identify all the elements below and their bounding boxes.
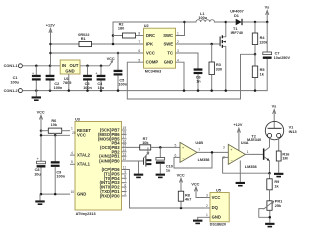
node SWC top rail <box>183 21 186 24</box>
ground PR1 <box>265 223 274 228</box>
svg-text:DRC: DRC <box>146 33 155 38</box>
svg-text:7: 7 <box>124 179 126 183</box>
node DQ pullup <box>180 207 183 210</box>
svg-text:+12V: +12V <box>46 24 55 28</box>
svg-text:+: + <box>182 146 184 150</box>
connector CON1-2 <box>4 89 23 93</box>
trimmer PR1 25k <box>259 200 282 223</box>
node C3 bottom <box>86 89 89 92</box>
svg-text:MC34063: MC34063 <box>145 69 161 73</box>
svg-text:DQ: DQ <box>212 205 219 210</box>
node T1 source gnd <box>225 89 228 92</box>
svg-text:VCC: VCC <box>191 182 199 186</box>
node gnd row C8 <box>40 193 43 196</box>
svg-text:GND: GND <box>65 69 74 74</box>
resistor R6 10k <box>41 119 70 134</box>
svg-text:7: 7 <box>198 148 200 152</box>
node C3 top <box>86 65 89 68</box>
capacitor C8 10u <box>34 156 45 194</box>
node C1 bottom <box>35 89 38 92</box>
svg-text:SWE: SWE <box>163 41 173 46</box>
svg-text:TC: TC <box>167 50 173 55</box>
node vcc row C8 <box>40 134 43 137</box>
wire vcc riser to caps <box>40 131 42 162</box>
power +12V symbol <box>46 24 55 66</box>
op-amp U4B LM358 <box>175 141 210 163</box>
svg-text:DS18B20: DS18B20 <box>210 223 226 227</box>
ground mcu <box>35 194 44 205</box>
svg-text:IRF740: IRF740 <box>231 31 243 35</box>
ground input <box>32 91 41 101</box>
svg-text:6: 6 <box>138 49 140 53</box>
wire U4A out to T2 base <box>245 153 263 155</box>
svg-text:9: 9 <box>124 170 126 174</box>
svg-text:U2: U2 <box>144 24 149 28</box>
node U1 gnd <box>68 89 71 92</box>
wire U2 GND pin4 <box>176 62 185 90</box>
svg-text:Vs: Vs <box>265 6 270 10</box>
svg-text:GND: GND <box>77 192 86 197</box>
svg-text:Vs: Vs <box>272 105 277 109</box>
svg-text:VCC: VCC <box>146 50 155 55</box>
svg-text:1: 1 <box>206 213 208 217</box>
resistor R8 4k7 <box>178 191 191 208</box>
capacitor C5 100n <box>114 53 128 91</box>
svg-text:U3: U3 <box>75 117 80 121</box>
svg-text:14: 14 <box>123 148 127 152</box>
svg-text:13: 13 <box>123 152 127 156</box>
node gate R3 <box>210 43 213 46</box>
ground U4A <box>236 160 245 186</box>
wire GND pin row <box>40 193 70 195</box>
capacitor C2 100n <box>46 66 63 91</box>
wire riser to top rail <box>113 22 185 44</box>
svg-text:180: 180 <box>118 27 124 31</box>
wire U4B output to U4A <box>197 151 228 153</box>
svg-text:1: 1 <box>71 127 73 131</box>
transistor T3 <box>122 147 152 166</box>
svg-text:(AIN0)PB0: (AIN0)PB0 <box>99 158 120 163</box>
capacitor C9 100n <box>51 135 66 194</box>
svg-text:10: 10 <box>71 190 75 194</box>
ground T3 <box>134 161 143 178</box>
power VCC arrow sensor <box>191 182 204 197</box>
svg-text:7: 7 <box>138 40 140 44</box>
resistor R4 120k <box>252 22 268 54</box>
node R3 gnd <box>210 89 213 92</box>
node R2 tap <box>112 34 115 37</box>
node R5 gnd <box>254 89 257 92</box>
power VCC arrow reset <box>37 111 45 131</box>
resistor R5 1k <box>252 54 264 90</box>
svg-text:C1: C1 <box>13 76 18 80</box>
resistor R1 0R022 <box>78 33 91 47</box>
resistor R3 330 <box>209 44 222 91</box>
svg-text:1: 1 <box>247 150 249 154</box>
svg-text:100u: 100u <box>10 80 19 84</box>
capacitor C10 1u <box>156 147 173 173</box>
svg-text:5: 5 <box>175 143 177 147</box>
wire output rail <box>255 21 267 23</box>
svg-text:IN: IN <box>62 63 66 68</box>
IC U2 MC34063 <box>138 24 179 74</box>
svg-text:R1: R1 <box>81 37 86 41</box>
wire U4A inverting feedback from emitter <box>223 157 270 173</box>
node PR1 wiper <box>269 216 272 219</box>
svg-text:5: 5 <box>71 160 73 164</box>
svg-text:20: 20 <box>72 131 76 135</box>
svg-text:VCC: VCC <box>77 133 86 138</box>
svg-text:18: 18 <box>123 131 127 135</box>
svg-text:1n: 1n <box>196 80 201 84</box>
capacitor C6 1n <box>194 68 203 90</box>
ground C10 <box>156 174 165 179</box>
wire PB3 pwm out <box>122 146 140 148</box>
node C4 bottom <box>100 89 103 92</box>
power VCC arrow at 5V rail <box>107 57 115 66</box>
ground U5 <box>193 220 202 225</box>
svg-text:LM358: LM358 <box>198 158 210 162</box>
svg-text:17: 17 <box>123 135 127 139</box>
connector CON1-1 <box>4 64 23 68</box>
power Vs tube arrow <box>272 105 277 129</box>
svg-text:1M: 1M <box>282 157 287 161</box>
node reset pullup <box>40 129 43 132</box>
node gnd row C9 <box>54 193 57 196</box>
svg-text:IPK: IPK <box>146 41 153 46</box>
svg-text:OUT: OUT <box>70 63 79 68</box>
node U2 gnd rail <box>183 89 186 92</box>
svg-text:4: 4 <box>71 151 73 155</box>
node C5 bottom <box>117 89 120 92</box>
svg-text:VCC: VCC <box>107 57 115 61</box>
svg-text:GND: GND <box>212 215 221 220</box>
resistor R9 1k <box>267 173 280 201</box>
wire PD6 one-wire bus <box>122 170 205 209</box>
wire TC pin3 to C6 <box>176 53 199 69</box>
svg-text:3: 3 <box>206 193 208 197</box>
wire U5 gnd <box>198 217 205 219</box>
svg-text:XTAL2: XTAL2 <box>77 153 91 158</box>
capacitor C3 100n <box>83 66 92 91</box>
svg-text:+: + <box>230 148 232 152</box>
node IPK row <box>112 43 115 46</box>
node T2 emitter sense <box>268 172 271 175</box>
op-amp U4A LM358 <box>223 141 257 169</box>
IC U5 DS18B20 <box>205 189 230 227</box>
svg-text:10u/250V: 10u/250V <box>274 56 291 60</box>
node +12V to VCC6 row <box>49 52 52 55</box>
IC U3 ATtiny2313 <box>70 117 127 216</box>
wire SWC pin1 to top rail <box>176 22 185 36</box>
wire ground rail <box>22 59 267 91</box>
node C5 top <box>117 52 120 55</box>
svg-text:3: 3 <box>223 145 225 149</box>
node feedback divider <box>254 53 257 56</box>
svg-text:7805: 7805 <box>63 81 71 85</box>
ground R16 <box>274 173 283 178</box>
wire U4B feedback loop <box>174 152 212 168</box>
svg-text:2: 2 <box>124 192 126 196</box>
svg-text:IN13: IN13 <box>289 130 297 134</box>
transistor T2 MJE340 <box>247 134 270 173</box>
capacitor C4 10u <box>95 66 105 91</box>
capacitor C1 100u <box>10 66 40 91</box>
svg-text:MJE340: MJE340 <box>247 138 261 142</box>
resistor R2 180 <box>113 22 144 38</box>
svg-text:(RXD)PD0: (RXD)PD0 <box>100 193 120 198</box>
node pwm filter <box>159 146 162 149</box>
svg-text:COMP: COMP <box>146 60 159 65</box>
svg-text:2: 2 <box>206 204 208 208</box>
resistor R16 1M <box>276 151 289 173</box>
node U4B out <box>211 151 214 154</box>
wire VCC pin row <box>41 134 70 136</box>
svg-text:−: − <box>182 156 184 160</box>
transistor T1 IRF740 <box>220 22 243 91</box>
node T1 drain <box>225 21 228 24</box>
svg-text:10u: 10u <box>34 172 41 176</box>
power VCC arrow pullup <box>177 174 185 192</box>
svg-text:19: 19 <box>123 126 127 130</box>
svg-text:25k: 25k <box>275 204 282 208</box>
node C2 bottom <box>49 89 52 92</box>
svg-text:6: 6 <box>175 153 177 157</box>
svg-text:SWC: SWC <box>163 33 173 38</box>
svg-text:XTAL1: XTAL1 <box>77 162 91 167</box>
wire COMP feedback <box>127 54 255 99</box>
node +12V to R1 row <box>49 43 52 46</box>
inductor L1 100u <box>185 12 226 22</box>
svg-text:100n: 100n <box>54 86 63 90</box>
wire 5V rail <box>80 65 109 67</box>
svg-text:CON1-1: CON1-1 <box>4 64 18 68</box>
svg-text:C7: C7 <box>275 51 280 55</box>
svg-text:LM358: LM358 <box>245 165 257 169</box>
tube V1 IN13 <box>265 121 296 151</box>
svg-text:GND: GND <box>164 60 173 65</box>
svg-text:+12V: +12V <box>233 123 242 127</box>
svg-text:CON1-2: CON1-2 <box>4 89 18 93</box>
wire input +12V row <box>22 65 60 67</box>
wire R1 row (+12V to IPK) <box>51 43 80 45</box>
svg-text:100n: 100n <box>118 82 127 86</box>
svg-text:ATtiny2313: ATtiny2313 <box>76 212 96 216</box>
node R4 top <box>254 21 257 24</box>
svg-text:VCC: VCC <box>177 174 185 178</box>
capacitor C7 10u/250V <box>263 22 291 60</box>
wire SWE pin2 gate drive <box>176 43 220 45</box>
svg-text:100n: 100n <box>83 86 92 90</box>
regulator U1 7805 <box>60 60 80 91</box>
svg-text:3: 3 <box>124 188 126 192</box>
svg-text:100n: 100n <box>56 174 65 178</box>
node +12V/C2 <box>49 65 52 68</box>
resistor R7 10k <box>140 137 180 150</box>
diode D1 UF4007 <box>226 10 255 26</box>
svg-text:8: 8 <box>138 32 140 36</box>
svg-text:6: 6 <box>124 183 126 187</box>
svg-text:VCC: VCC <box>212 195 221 200</box>
node C6 gnd <box>197 89 200 92</box>
svg-text:−: − <box>231 158 233 162</box>
power Vs output arrow <box>265 6 270 22</box>
power +12V opamp <box>233 123 242 151</box>
wire VCC6 row <box>51 52 144 54</box>
svg-text:4k7: 4k7 <box>185 198 191 202</box>
node C1 top <box>35 65 38 68</box>
svg-text:VCC: VCC <box>37 111 45 115</box>
svg-text:330: 330 <box>216 67 222 71</box>
svg-text:1u: 1u <box>166 169 171 173</box>
node vcc row C9 <box>54 134 57 137</box>
node C4 top <box>100 65 103 68</box>
node C7 top <box>266 21 269 24</box>
svg-text:8: 8 <box>124 175 126 179</box>
svg-text:10k: 10k <box>51 123 58 127</box>
svg-text:D1: D1 <box>234 14 239 18</box>
svg-text:U4B: U4B <box>195 141 203 145</box>
